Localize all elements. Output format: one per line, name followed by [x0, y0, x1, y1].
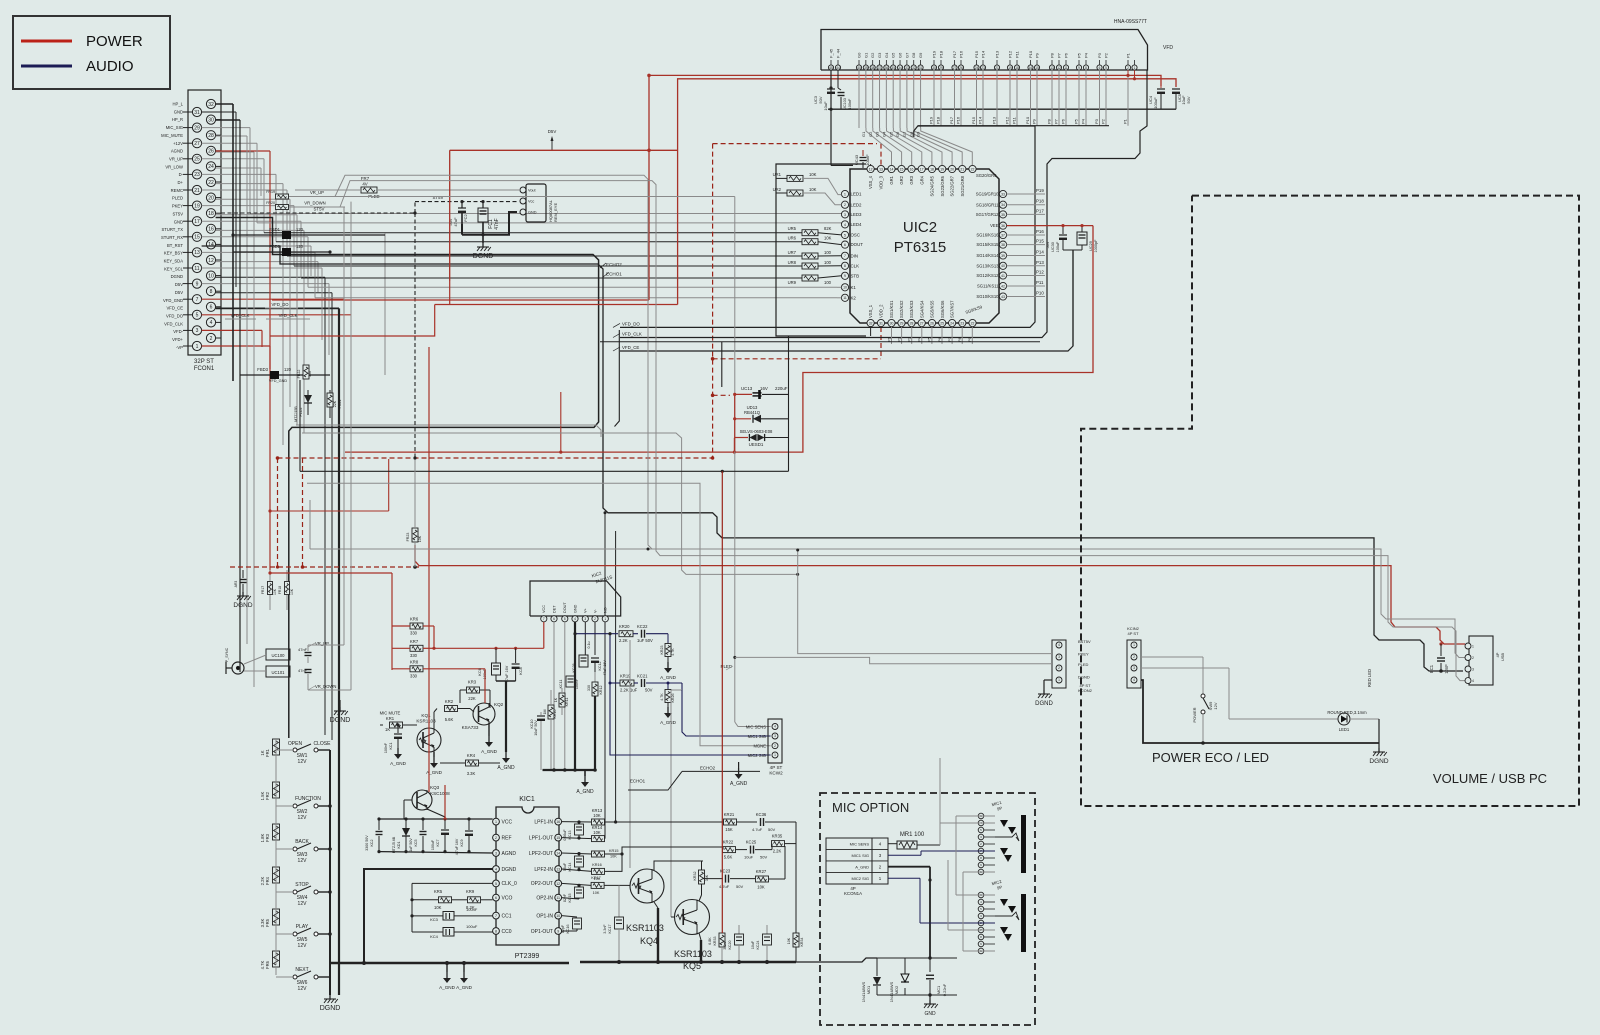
svg-text:330: 330 — [410, 673, 418, 678]
svg-text:P4: P4 — [1084, 52, 1089, 58]
capacitor UC5 10uF — [1172, 88, 1180, 90]
svg-text:PT6315: PT6315 — [894, 239, 947, 256]
FCON1 pin 19 — [192, 201, 201, 210]
svg-text:1N4148WS: 1N4148WS — [861, 981, 866, 1002]
svg-text:KR27: KR27 — [756, 869, 767, 874]
UIC2 pin 1 LED1 — [841, 190, 848, 197]
svg-text:STB: STB — [851, 273, 860, 278]
wire — [202, 283, 329, 285]
svg-text:A_GND: A_GND — [481, 749, 498, 754]
svg-text:100nF: 100nF — [384, 742, 388, 753]
long gray wire to USB 1 — [296, 425, 601, 437]
svg-text:4: 4 — [1133, 678, 1135, 682]
resistor KR6 330 — [410, 623, 423, 629]
svg-text:5.6K: 5.6K — [445, 717, 454, 722]
resistor KR8 330 — [410, 666, 423, 672]
svg-text:P9: P9 — [967, 336, 972, 342]
svg-text:G5: G5 — [891, 52, 896, 58]
svg-text:32: 32 — [208, 102, 214, 108]
UIC2 top pin 19 — [939, 165, 946, 172]
UIC2 right pin 34 SG18/GR11 — [999, 201, 1006, 208]
svg-text:A_GND: A_GND — [497, 765, 515, 771]
svg-text:PT2399: PT2399 — [515, 953, 540, 960]
wire — [1030, 70, 1032, 126]
svg-text:KR2: KR2 — [445, 699, 454, 704]
svg-text:A_GND: A_GND — [576, 789, 594, 795]
svg-text:100uF: 100uF — [1056, 241, 1060, 252]
svg-text:VFD_GND: VFD_GND — [163, 298, 183, 303]
svg-text:30: 30 — [890, 321, 894, 325]
power wire red rail 2 — [678, 79, 1176, 305]
svg-text:10K: 10K — [809, 187, 817, 192]
svg-text:NEXT: NEXT — [295, 967, 308, 973]
svg-text:5: 5 — [564, 617, 566, 621]
UIC2 bottom pin 23 — [959, 319, 966, 326]
wire VFD_DO long — [620, 126, 1035, 327]
svg-text:2: 2 — [774, 744, 776, 748]
wire — [933, 70, 935, 126]
svg-text:2: 2 — [210, 336, 213, 342]
svg-text:POWER ECO / LED: POWER ECO / LED — [1152, 750, 1269, 765]
svg-text:220uF: 220uF — [775, 386, 788, 391]
svg-text:40: 40 — [1001, 264, 1005, 268]
svg-text:KR15: KR15 — [609, 849, 619, 853]
svg-text:10K: 10K — [824, 236, 832, 241]
resistor FR4 2.2K — [273, 867, 280, 883]
wire — [202, 314, 351, 316]
svg-text:KR32: KR32 — [693, 872, 697, 881]
svg-text:3.3K: 3.3K — [260, 918, 265, 927]
KQ3 emitter to VCC — [427, 809, 445, 819]
VFD pin 5 — [1103, 65, 1108, 70]
FCON1 pin 25 — [192, 154, 201, 163]
svg-text:12: 12 — [1057, 66, 1061, 70]
svg-text:KQ4: KQ4 — [640, 936, 658, 946]
svg-text:BC1: BC1 — [1429, 664, 1434, 673]
svg-text:9: 9 — [557, 929, 559, 933]
svg-text:1M: 1M — [543, 710, 547, 715]
svg-text:2: 2 — [1058, 666, 1060, 670]
resistor KR9 8.2K — [468, 897, 481, 903]
UIC2 pin 3 LED3 — [841, 211, 848, 218]
resistor KR2 5.6K — [445, 706, 458, 712]
UIC2 top pin 18 — [928, 165, 935, 172]
wire — [216, 245, 311, 247]
svg-text:KD1: KD1 — [397, 842, 401, 849]
svg-text:2: 2 — [844, 203, 846, 207]
ferrite bead FBD2 120 — [233, 251, 282, 253]
resistor FR22 100 — [303, 365, 309, 379]
UIC2 right pin 37 SG16/KS16 — [999, 231, 1006, 238]
svg-text:UC5: UC5 — [1177, 93, 1182, 102]
svg-text:PLED: PLED — [172, 196, 183, 201]
svg-text:8: 8 — [1085, 66, 1087, 70]
svg-text:100nF: 100nF — [575, 678, 579, 689]
ground DGND led — [1378, 748, 1380, 752]
svg-text:P16: P16 — [959, 50, 964, 58]
svg-text:24: 24 — [208, 164, 214, 170]
svg-text:UR2: UR2 — [773, 187, 782, 192]
svg-text:UR8: UR8 — [788, 260, 797, 265]
svg-text:4P ST: 4P ST — [770, 765, 783, 770]
svg-text:1: 1 — [1134, 66, 1136, 70]
svg-text:P12: P12 — [1036, 270, 1044, 275]
svg-text:G3: G3 — [877, 52, 882, 58]
svg-text:47uF 16V: 47uF 16V — [505, 665, 509, 682]
svg-text:LPF1-OUT: LPF1-OUT — [529, 835, 553, 841]
svg-text:SG3/KS3: SG3/KS3 — [909, 300, 914, 318]
VFD pin 36 — [884, 65, 889, 70]
wire — [1051, 70, 1053, 126]
svg-text:FCON1: FCON1 — [194, 366, 215, 372]
UIC2 bottom pin 31 — [877, 319, 884, 326]
svg-text:47nF: 47nF — [494, 218, 500, 229]
FCON1 pin 12 — [206, 255, 215, 264]
svg-text:3: 3 — [1058, 655, 1060, 659]
legend box — [13, 16, 170, 89]
wire — [954, 70, 956, 126]
svg-text:12V: 12V — [298, 986, 308, 992]
svg-text:47uF 16V: 47uF 16V — [603, 660, 607, 676]
svg-text:P12: P12 — [1008, 50, 1013, 58]
red lower-left links — [388, 459, 390, 511]
resistor KR5 10K — [439, 897, 452, 903]
svg-text:P9: P9 — [1035, 52, 1040, 58]
svg-text:P18: P18 — [1036, 199, 1044, 204]
capacitor KC4 100uF — [412, 931, 443, 933]
wire — [202, 329, 262, 331]
svg-text:G0: G0 — [857, 52, 862, 58]
MIC OPTION dashed box — [820, 793, 1035, 1025]
wire grid — [907, 128, 952, 165]
VFD pin 37 — [877, 65, 882, 70]
svg-text:UR7: UR7 — [788, 250, 797, 255]
svg-text:MIC1 SIG: MIC1 SIG — [851, 853, 869, 858]
svg-text:SG10/KS10: SG10/KS10 — [976, 294, 999, 299]
svg-text:14: 14 — [556, 851, 560, 855]
wire red step bottom-left — [270, 305, 435, 337]
svg-text:STURT_RX: STURT_RX — [161, 235, 183, 240]
capacitor FC1 47nF — [482, 202, 484, 208]
row KC23 KR27 — [703, 878, 723, 880]
capacitor AR3 — [242, 570, 244, 578]
wire — [202, 173, 276, 175]
VFD pin 33 — [904, 65, 909, 70]
capacitor KC25 10uF 50V — [750, 846, 752, 854]
svg-text:10K: 10K — [593, 891, 600, 895]
wire — [331, 293, 333, 740]
svg-text:16: 16 — [1029, 66, 1033, 70]
svg-text:P2: P2 — [1104, 52, 1109, 58]
svg-text:UC3: UC3 — [813, 95, 818, 104]
svg-text:100: 100 — [824, 260, 832, 265]
svg-text:SG12/KS12: SG12/KS12 — [976, 273, 999, 278]
svg-text:P16: P16 — [1036, 229, 1044, 234]
svg-text:ECHO1: ECHO1 — [606, 271, 622, 276]
svg-text:KSA733: KSA733 — [462, 725, 479, 730]
svg-text:4: 4 — [1472, 679, 1474, 683]
svg-text:V+: V+ — [584, 607, 588, 613]
UIC2 top pin 13 — [877, 165, 884, 172]
svg-text:CLK: CLK — [851, 263, 860, 268]
svg-text:KC36: KC36 — [756, 812, 767, 817]
svg-text:4: 4 — [1058, 643, 1060, 647]
KIC2 pin 6 DET — [551, 616, 557, 622]
wire — [960, 70, 962, 126]
svg-text:FR17: FR17 — [261, 586, 265, 594]
wire — [216, 183, 283, 185]
svg-text:1: 1 — [604, 617, 606, 621]
svg-text:P8: P8 — [1050, 52, 1055, 58]
svg-text:KC4: KC4 — [430, 934, 439, 939]
wire KR19 row — [609, 634, 611, 683]
svg-text:KC2: KC2 — [370, 840, 374, 847]
svg-text:LED1: LED1 — [851, 192, 863, 197]
UIC2 top pin 12 — [867, 165, 874, 172]
svg-text:KQ3: KQ3 — [430, 785, 440, 790]
svg-text:32: 32 — [912, 66, 916, 70]
svg-text:1K: 1K — [385, 727, 390, 732]
UIC2 pin 6 DOUT — [841, 241, 848, 248]
capacitor KC12 47uF — [591, 657, 599, 659]
svg-text:10: 10 — [843, 286, 847, 290]
wire — [216, 150, 270, 152]
svg-text:SG22/GR7: SG22/GR7 — [950, 175, 955, 196]
FCON1 pin 7 — [192, 295, 201, 304]
FCON1 pin 1 — [192, 341, 201, 350]
svg-text:33K: 33K — [705, 874, 709, 881]
svg-text:34: 34 — [1001, 203, 1005, 207]
svg-text:38: 38 — [1001, 243, 1005, 247]
UIC2 pin 2 LED2 — [841, 201, 848, 208]
KIC1 pin 8 CC0 — [493, 928, 500, 935]
svg-text:8: 8 — [210, 289, 213, 295]
wire — [216, 214, 297, 216]
svg-text:37: 37 — [1001, 233, 1005, 237]
svg-text:1: 1 — [774, 753, 776, 757]
svg-text:100uF: 100uF — [466, 924, 478, 929]
svg-text:34: 34 — [898, 66, 902, 70]
svg-text:UESD1: UESD1 — [749, 442, 764, 447]
wire — [246, 136, 248, 644]
capacitor KC17 3.3nF — [618, 885, 620, 917]
VFD pin 23 — [980, 65, 985, 70]
capacitor KC3 100nF — [412, 915, 443, 917]
svg-text:SG16/KS16: SG16/KS16 — [976, 233, 999, 238]
UIC2 right pin 43 SG10/KS10 — [999, 293, 1006, 300]
wire — [202, 267, 322, 269]
svg-text:KC21: KC21 — [637, 674, 648, 679]
wire — [269, 346, 271, 369]
wire PLED vertical — [734, 197, 736, 723]
wire KR14 feeder — [604, 513, 606, 839]
svg-text:330: 330 — [587, 685, 591, 691]
UIC2 bottom pin 28 — [908, 319, 915, 326]
svg-text:REM_EYE: REM_EYE — [553, 203, 558, 222]
svg-text:10K: 10K — [757, 885, 765, 890]
svg-text:1: 1 — [844, 192, 846, 196]
wire — [235, 112, 237, 287]
connector UC100 47nF — [266, 649, 290, 660]
svg-text:5: 5 — [1105, 66, 1107, 70]
wire — [202, 127, 250, 129]
svg-text:USB: USB — [1500, 653, 1505, 662]
svg-text:BT_RST: BT_RST — [167, 243, 183, 248]
wire — [317, 262, 319, 292]
svg-text:P18: P18 — [939, 50, 944, 58]
svg-text:2: 2 — [1472, 656, 1474, 660]
legend AUDIO wire — [21, 65, 72, 68]
svg-text:50V: 50V — [1186, 96, 1191, 103]
wire — [296, 215, 298, 425]
svg-text:13: 13 — [1050, 66, 1054, 70]
svg-text:SG1/KS1: SG1/KS1 — [889, 300, 894, 318]
svg-text:OP2-OUT: OP2-OUT — [531, 881, 553, 887]
svg-text:FBD1: FBD1 — [269, 227, 280, 232]
svg-text:LPF2-IN: LPF2-IN — [534, 867, 553, 873]
svg-text:UR1: UR1 — [773, 172, 782, 177]
svg-text:LED3: LED3 — [851, 212, 863, 217]
VFD pin 35 — [891, 65, 896, 70]
wire — [239, 120, 241, 672]
svg-text:VCO: VCO — [502, 895, 513, 901]
capacitor FC2 47uF — [461, 202, 463, 208]
svg-text:16: 16 — [910, 167, 914, 171]
svg-text:330: 330 — [410, 653, 418, 658]
wire grid — [900, 128, 942, 165]
VFD pin 24 — [974, 65, 979, 70]
FCON1 pin 4 — [206, 318, 215, 327]
resistor KR27 10K — [756, 876, 769, 882]
svg-text:G7: G7 — [902, 131, 907, 137]
svg-text:KR10: KR10 — [553, 710, 557, 719]
VOLUME USB PC dashed box — [1081, 196, 1579, 806]
resistor KR22 5.6K — [723, 847, 736, 853]
capacitor UC29 1000pF — [1081, 226, 1083, 232]
svg-text:D+: D+ — [178, 180, 184, 185]
svg-text:2: 2 — [1133, 655, 1135, 659]
svg-text:Vout: Vout — [528, 189, 537, 193]
svg-text:MR1 100: MR1 100 — [900, 832, 925, 838]
KIC1 pin 10 OP1-IN — [555, 912, 562, 919]
svg-text:50V: 50V — [768, 827, 775, 832]
svg-text:50V: 50V — [760, 855, 767, 860]
ground bus bottom left — [330, 962, 569, 964]
svg-text:OPEN: OPEN — [288, 741, 303, 747]
svg-text:ST5V: ST5V — [173, 211, 184, 216]
capacitor KC36 4.7uF 50V — [760, 818, 762, 826]
KIC1 CLK wire — [412, 882, 493, 884]
red feed bus KIC2 — [391, 624, 393, 670]
svg-text:FC2: FC2 — [463, 213, 468, 221]
svg-text:14: 14 — [890, 167, 894, 171]
svg-text:KR16: KR16 — [592, 863, 602, 867]
svg-text:UIC2: UIC2 — [903, 219, 937, 236]
svg-text:KC5: KC5 — [414, 840, 418, 847]
svg-text:SG4/KS4: SG4/KS4 — [919, 300, 924, 318]
svg-text:G5: G5 — [888, 131, 893, 137]
resistor UR6 10K — [802, 239, 818, 245]
svg-text:1: 1 — [495, 820, 497, 824]
svg-text:SG5/KS5: SG5/KS5 — [930, 300, 935, 318]
svg-text:0.56uF: 0.56uF — [563, 829, 567, 841]
svg-text:G4: G4 — [884, 52, 889, 58]
svg-text:KR35: KR35 — [772, 834, 783, 839]
svg-text:2: 2 — [495, 836, 497, 840]
svg-text:21: 21 — [194, 188, 200, 194]
KQ1 base resistor squiggle — [419, 738, 426, 742]
wires jack to caps — [244, 655, 266, 664]
VFD pin 32 — [911, 65, 916, 70]
svg-text:3: 3 — [584, 617, 586, 621]
capacitor KC28 — [579, 655, 588, 667]
wire to KQ5 base — [681, 683, 683, 690]
svg-text:MD1: MD1 — [866, 985, 871, 994]
svg-text:4: 4 — [210, 320, 213, 326]
svg-text:UC30: UC30 — [1051, 242, 1055, 252]
svg-text:KR6: KR6 — [410, 617, 419, 622]
svg-text:P11: P11 — [1036, 280, 1044, 285]
capacitor KC11 100nF — [566, 676, 575, 687]
resistor KR10 1M — [548, 705, 554, 719]
svg-text:P19: P19 — [1036, 188, 1044, 193]
dark red vertical to MIC area — [721, 471, 723, 933]
svg-text:1.8K: 1.8K — [260, 833, 265, 842]
svg-text:4.7uF: 4.7uF — [752, 827, 763, 832]
svg-text:FR20: FR20 — [266, 201, 275, 205]
power wire red loop y150 — [450, 149, 678, 151]
svg-text:NO: NO — [604, 607, 608, 613]
VFD pin 39 — [863, 65, 868, 70]
wire — [1127, 70, 1129, 126]
wire — [202, 251, 315, 253]
svg-text:VFD_DO: VFD_DO — [272, 302, 290, 307]
wire — [253, 152, 255, 687]
FCON1 pin 29 — [192, 123, 201, 132]
svg-text:50V: 50V — [736, 884, 743, 889]
wire KR13 feeder — [615, 531, 617, 822]
mic1 contacts — [1021, 815, 1026, 873]
KQ5 base wire — [671, 916, 674, 918]
svg-text:KR20: KR20 — [619, 624, 630, 629]
UIC2 bottom pin 24 — [949, 319, 956, 326]
svg-text:22: 22 — [971, 321, 975, 325]
svg-text:MD2: MD2 — [894, 985, 899, 994]
svg-text:MIC_SIG: MIC_SIG — [166, 125, 183, 130]
svg-text:GND: GND — [924, 1011, 936, 1017]
FCON1 pin 28 — [206, 131, 215, 140]
resistor FR2 1.5K — [273, 782, 280, 798]
wire — [1065, 70, 1067, 126]
KQ5 emitter wire — [699, 933, 701, 940]
svg-text:10uF 50V: 10uF 50V — [534, 720, 538, 736]
svg-text:FR4: FR4 — [265, 876, 270, 885]
svg-text:D5V: D5V — [175, 290, 183, 295]
svg-text:SG21/GR8: SG21/GR8 — [960, 175, 965, 196]
svg-text:GND: GND — [528, 211, 537, 215]
resistor FR5 3.3K — [273, 909, 280, 925]
svg-text:22K: 22K — [468, 696, 476, 701]
wire — [1016, 70, 1018, 126]
svg-text:18: 18 — [208, 211, 214, 217]
svg-text:P14: P14 — [981, 50, 986, 58]
wire — [216, 261, 318, 263]
svg-text:19: 19 — [1008, 66, 1012, 70]
VFD pin 9 — [1076, 65, 1081, 70]
wire — [282, 184, 284, 445]
KQ2 emitter A_GND — [488, 723, 490, 736]
wire — [314, 252, 316, 297]
